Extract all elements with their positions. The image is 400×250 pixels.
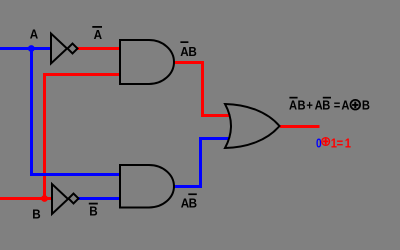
svg-text:A: A bbox=[30, 27, 39, 42]
inverter U2 bubble (diamond) bbox=[69, 194, 79, 204]
svg-text:A: A bbox=[94, 27, 103, 42]
svg-text:0: 0 bbox=[316, 136, 322, 150]
wire: A branch vertical down from junction (blue) bbox=[30, 49, 33, 176]
wire: input B horizontal (red) bbox=[0, 197, 53, 200]
svg-text:A: A bbox=[289, 98, 297, 113]
svg-text:B: B bbox=[89, 204, 98, 219]
wire: OR output (red) bbox=[280, 125, 320, 128]
svg-text:B: B bbox=[298, 98, 306, 113]
wire: B branch horizontal to top AND lower input (red) bbox=[43, 73, 121, 76]
wire: B branch vertical up from junction (red) bbox=[43, 73, 46, 199]
inverter U1 bubble (diamond) bbox=[68, 44, 78, 54]
svg-text:A: A bbox=[341, 98, 349, 113]
svg-text:=: = bbox=[334, 98, 341, 113]
junction node on B wire bbox=[41, 195, 48, 202]
svg-text:=: = bbox=[337, 136, 344, 151]
AND gate U3 (top) bbox=[120, 40, 174, 84]
wire: input A horizontal (blue) bbox=[0, 47, 52, 50]
wire: top AND output to OR upper input (red) bbox=[174, 63, 232, 116]
inverter U1 (NOT A) triangle bbox=[51, 34, 67, 64]
svg-text:B: B bbox=[189, 196, 198, 211]
xor symbol (red circle plus) bbox=[322, 138, 330, 146]
OR gate U5 bbox=[225, 104, 280, 148]
svg-text:+: + bbox=[306, 98, 313, 113]
AND gate U4 (bottom) bbox=[120, 165, 174, 208]
wire: bottom AND output to OR lower input (blue) bbox=[174, 139, 232, 187]
svg-text:B: B bbox=[188, 44, 197, 59]
label equation A-bar B + A B-bar = A xor B bbox=[289, 98, 370, 113]
wire: NOT-A output to top AND upper input (red) bbox=[77, 47, 121, 50]
svg-text:1: 1 bbox=[345, 136, 351, 151]
svg-text:B: B bbox=[322, 98, 330, 113]
wire: A branch horizontal to bottom AND upper input (blue, crosses over red) bbox=[30, 173, 121, 176]
wire: NOT-B output to bottom AND lower input (blue) bbox=[78, 197, 121, 200]
svg-text:B: B bbox=[32, 207, 41, 222]
junction node on A wire bbox=[28, 45, 35, 52]
xor symbol in equation (circle plus) bbox=[351, 100, 361, 110]
svg-text:B: B bbox=[362, 98, 370, 113]
inverter U2 (NOT B) triangle bbox=[52, 184, 68, 214]
